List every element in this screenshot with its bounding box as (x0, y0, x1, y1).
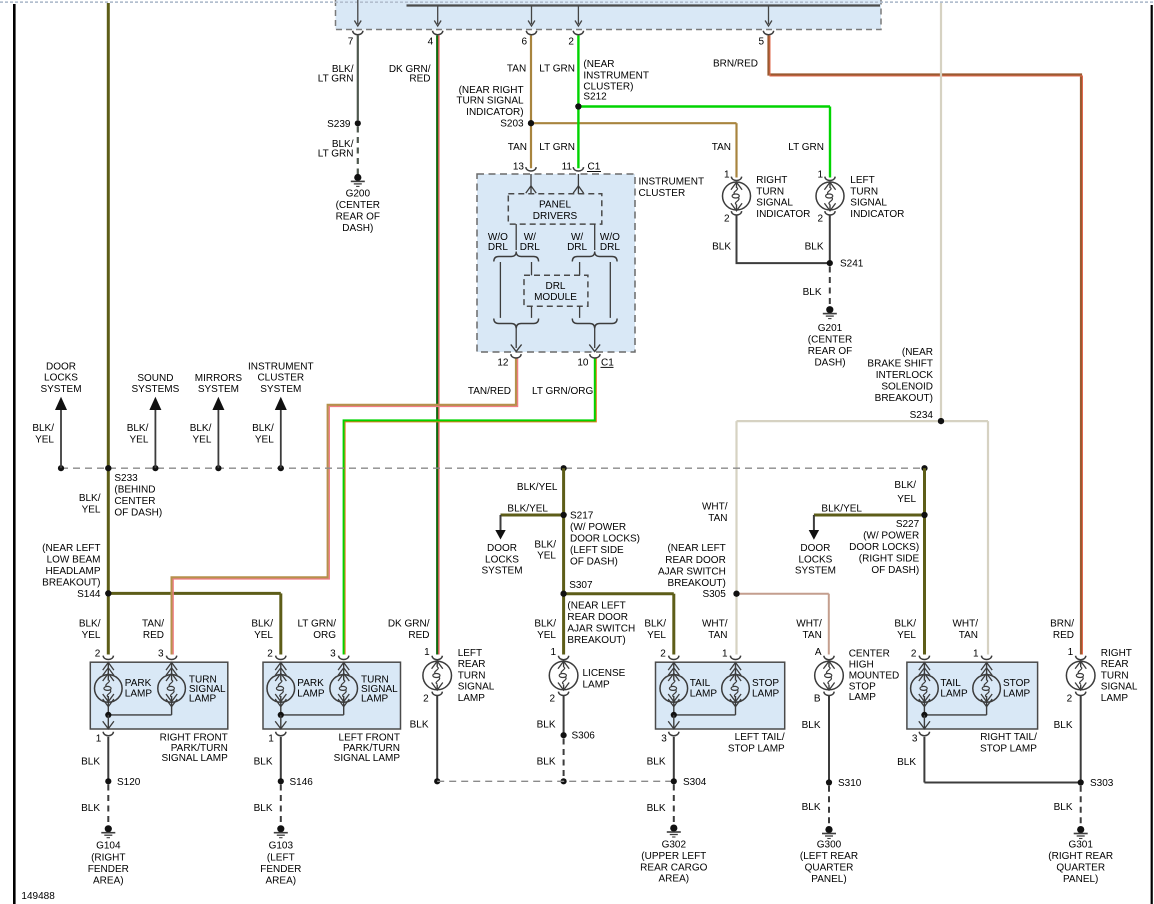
svg-text:1: 1 (268, 734, 274, 745)
svg-text:LT GRN: LT GRN (539, 142, 575, 153)
svg-text:BLK: BLK (1054, 720, 1073, 731)
svg-text:LAMP: LAMP (125, 688, 153, 699)
svg-text:(W/ POWER: (W/ POWER (863, 530, 919, 541)
svg-text:S227: S227 (896, 519, 920, 530)
svg-text:CENTER: CENTER (849, 649, 890, 660)
svg-text:(BEHIND: (BEHIND (114, 485, 155, 496)
svg-text:(NEAR LEFT: (NEAR LEFT (667, 543, 725, 554)
svg-text:BLK/: BLK/ (534, 540, 556, 551)
svg-text:1: 1 (424, 647, 430, 658)
svg-text:S233: S233 (114, 473, 138, 484)
svg-text:REAR DOOR: REAR DOOR (567, 612, 628, 623)
svg-text:BLK: BLK (537, 757, 556, 768)
svg-text:TURN: TURN (458, 670, 486, 681)
svg-text:SIGNAL LAMP: SIGNAL LAMP (334, 753, 401, 764)
svg-text:PANEL): PANEL) (1063, 874, 1098, 885)
svg-text:INSTRUMENT: INSTRUMENT (248, 362, 314, 373)
svg-text:RIGHT TAIL/: RIGHT TAIL/ (980, 732, 1037, 743)
svg-text:TAN: TAN (508, 142, 527, 153)
svg-text:RED: RED (143, 630, 164, 641)
svg-text:MIRRORS: MIRRORS (195, 373, 243, 384)
svg-text:MOUNTED: MOUNTED (849, 670, 900, 681)
svg-text:(NEAR LEFT: (NEAR LEFT (567, 601, 625, 612)
svg-text:SIGNAL: SIGNAL (1101, 682, 1138, 693)
svg-text:WHT/: WHT/ (952, 619, 978, 630)
svg-text:DK GRN/: DK GRN/ (388, 619, 430, 630)
svg-text:TAN/: TAN/ (142, 619, 164, 630)
svg-text:DOOR LOCKS): DOOR LOCKS) (849, 542, 919, 553)
svg-text:BLK: BLK (802, 720, 821, 731)
svg-text:S144: S144 (77, 589, 101, 600)
svg-text:SYSTEM: SYSTEM (481, 565, 522, 576)
svg-text:SYSTEMS: SYSTEMS (132, 384, 180, 395)
svg-text:YEL: YEL (255, 434, 274, 445)
svg-text:(LEFT SIDE: (LEFT SIDE (570, 545, 624, 556)
svg-text:G103: G103 (269, 841, 294, 852)
svg-text:G201: G201 (818, 323, 843, 334)
svg-text:LT GRN: LT GRN (539, 64, 575, 75)
svg-text:TAN: TAN (708, 630, 727, 641)
svg-text:G300: G300 (817, 840, 842, 851)
svg-text:LT GRN: LT GRN (318, 148, 354, 159)
svg-text:LEFT: LEFT (458, 648, 482, 659)
svg-text:S310: S310 (838, 778, 862, 789)
svg-text:6: 6 (521, 37, 527, 48)
svg-text:2: 2 (95, 648, 101, 659)
svg-text:INSTRUMENT: INSTRUMENT (583, 70, 649, 81)
svg-text:SYSTEM: SYSTEM (260, 384, 301, 395)
svg-text:DOOR: DOOR (487, 543, 517, 554)
svg-text:TURN: TURN (850, 186, 878, 197)
svg-text:S217: S217 (570, 511, 594, 522)
svg-text:YEL: YEL (537, 630, 556, 641)
svg-text:(CENTER: (CENTER (336, 200, 380, 211)
svg-text:RIGHT: RIGHT (756, 175, 787, 186)
svg-text:SIGNAL LAMP: SIGNAL LAMP (161, 753, 228, 764)
svg-text:(LEFT REAR: (LEFT REAR (800, 851, 858, 862)
svg-text:ORG: ORG (313, 630, 336, 641)
svg-text:1: 1 (973, 648, 979, 659)
svg-text:BREAKOUT): BREAKOUT) (875, 393, 933, 404)
svg-text:LAMP: LAMP (297, 688, 325, 699)
svg-text:STOP LAMP: STOP LAMP (980, 744, 1037, 755)
svg-text:S239: S239 (327, 119, 351, 130)
svg-text:BLK: BLK (805, 242, 824, 253)
svg-text:AJAR SWITCH: AJAR SWITCH (658, 567, 726, 578)
svg-text:S306: S306 (572, 731, 596, 742)
svg-text:BLK: BLK (81, 803, 100, 814)
svg-text:STOP: STOP (752, 678, 779, 689)
svg-text:BLK: BLK (1054, 802, 1073, 813)
svg-text:QUARTER: QUARTER (805, 862, 854, 873)
svg-text:LAMP: LAMP (752, 688, 780, 699)
svg-text:C1: C1 (588, 162, 601, 173)
svg-text:YEL: YEL (192, 434, 211, 445)
svg-text:S307: S307 (569, 580, 593, 591)
svg-text:3: 3 (330, 648, 336, 659)
svg-text:3: 3 (912, 734, 918, 745)
svg-text:LAMP: LAMP (1101, 693, 1129, 704)
svg-text:TAIL: TAIL (690, 678, 711, 689)
svg-text:RIGHT FRONT: RIGHT FRONT (160, 732, 228, 743)
svg-text:INSTRUMENT: INSTRUMENT (639, 177, 705, 188)
svg-text:BRAKE SHIFT: BRAKE SHIFT (867, 359, 933, 370)
svg-text:12: 12 (497, 357, 509, 368)
svg-text:STOP: STOP (1003, 678, 1030, 689)
svg-text:YEL: YEL (254, 630, 273, 641)
svg-text:LAMP: LAMP (583, 679, 611, 690)
svg-text:REAR: REAR (1101, 659, 1129, 670)
svg-text:DRL: DRL (600, 242, 620, 253)
svg-text:LOCKS: LOCKS (798, 554, 832, 565)
svg-text:2: 2 (660, 648, 666, 659)
svg-text:WHT/: WHT/ (796, 619, 822, 630)
svg-text:S234: S234 (910, 410, 934, 421)
svg-text:C1: C1 (601, 357, 614, 368)
svg-text:DASH): DASH) (814, 358, 845, 369)
svg-text:2: 2 (568, 37, 574, 48)
svg-text:BLK: BLK (802, 802, 821, 813)
svg-text:3: 3 (661, 734, 667, 745)
svg-text:DRIVERS: DRIVERS (533, 211, 578, 222)
svg-text:BLK/: BLK/ (79, 493, 101, 504)
svg-text:LEFT FRONT: LEFT FRONT (339, 732, 400, 743)
svg-text:BREAKOUT): BREAKOUT) (42, 578, 100, 589)
svg-text:S212: S212 (583, 92, 607, 103)
svg-text:BLK/: BLK/ (32, 423, 54, 434)
svg-text:LT GRN: LT GRN (788, 142, 824, 153)
svg-text:AREA): AREA) (659, 874, 690, 885)
svg-text:SIGNAL: SIGNAL (458, 682, 495, 693)
svg-text:BLK/: BLK/ (79, 619, 101, 630)
svg-text:OF DASH): OF DASH) (114, 508, 162, 519)
svg-text:(W/ POWER: (W/ POWER (570, 522, 626, 533)
svg-text:TURN: TURN (756, 186, 784, 197)
svg-text:A: A (815, 647, 822, 658)
svg-text:SIGNAL: SIGNAL (756, 198, 793, 209)
svg-text:YEL: YEL (82, 505, 101, 516)
svg-text:13: 13 (513, 162, 525, 173)
svg-text:S241: S241 (840, 259, 864, 270)
svg-text:2: 2 (550, 693, 556, 704)
svg-text:FENDER: FENDER (88, 864, 129, 875)
svg-text:BLK: BLK (803, 287, 822, 298)
svg-text:2: 2 (423, 693, 429, 704)
svg-text:S203: S203 (500, 119, 524, 130)
svg-text:REAR OF: REAR OF (336, 212, 380, 223)
svg-text:PARK/TURN: PARK/TURN (171, 743, 228, 754)
svg-text:YEL: YEL (647, 630, 666, 641)
svg-text:RED: RED (1053, 630, 1074, 641)
svg-text:YEL: YEL (129, 434, 148, 445)
svg-text:TAN/RED: TAN/RED (468, 386, 511, 397)
svg-text:1: 1 (817, 170, 823, 181)
svg-text:1: 1 (96, 734, 102, 745)
svg-text:1: 1 (722, 648, 728, 659)
svg-text:BLK: BLK (410, 720, 429, 731)
svg-text:LAMP: LAMP (690, 688, 718, 699)
svg-text:HEADLAMP: HEADLAMP (45, 566, 100, 577)
svg-text:BLK/: BLK/ (644, 619, 666, 630)
svg-text:TURN SIGNAL: TURN SIGNAL (456, 96, 524, 107)
svg-text:DRL: DRL (488, 242, 508, 253)
svg-text:BLK: BLK (647, 803, 666, 814)
svg-text:LAMP: LAMP (189, 694, 217, 705)
svg-text:BLK: BLK (647, 757, 666, 768)
svg-text:CLUSTER): CLUSTER) (583, 81, 633, 92)
svg-text:AJAR SWITCH: AJAR SWITCH (567, 624, 635, 635)
svg-text:LT GRN/: LT GRN/ (297, 619, 336, 630)
svg-text:YEL: YEL (82, 630, 101, 641)
svg-text:TAN: TAN (712, 142, 731, 153)
svg-text:LAMP: LAMP (849, 692, 877, 703)
svg-text:BLK: BLK (897, 757, 916, 768)
svg-text:QUARTER: QUARTER (1056, 862, 1105, 873)
svg-text:PANEL): PANEL) (811, 874, 846, 885)
svg-text:LICENSE: LICENSE (583, 668, 626, 679)
svg-text:2: 2 (911, 648, 917, 659)
svg-text:BLK: BLK (81, 757, 100, 768)
svg-text:INDICATOR: INDICATOR (850, 209, 904, 220)
svg-text:YEL: YEL (897, 630, 916, 641)
svg-text:G302: G302 (662, 840, 687, 851)
svg-text:PARK: PARK (125, 678, 152, 689)
svg-text:PARK/TURN: PARK/TURN (343, 743, 400, 754)
svg-text:DRL: DRL (567, 242, 587, 253)
svg-text:2: 2 (1067, 693, 1073, 704)
svg-text:REAR OF: REAR OF (808, 346, 852, 357)
svg-text:RIGHT: RIGHT (1101, 648, 1132, 659)
svg-text:SYSTEM: SYSTEM (198, 384, 239, 395)
svg-text:BRN/RED: BRN/RED (713, 59, 758, 70)
svg-text:(CENTER: (CENTER (808, 335, 852, 346)
svg-text:LEFT TAIL/: LEFT TAIL/ (735, 732, 785, 743)
svg-text:TAN: TAN (507, 64, 526, 75)
svg-text:BLK/: BLK/ (894, 619, 916, 630)
svg-text:S305: S305 (702, 589, 726, 600)
svg-text:B: B (814, 693, 821, 704)
svg-text:SOUND: SOUND (137, 373, 173, 384)
svg-text:1: 1 (724, 170, 730, 181)
svg-text:BREAKOUT): BREAKOUT) (667, 578, 725, 589)
svg-text:(NEAR LEFT: (NEAR LEFT (42, 543, 100, 554)
svg-text:(NEAR: (NEAR (583, 59, 614, 70)
svg-text:SOLENOID: SOLENOID (881, 382, 933, 393)
svg-text:YEL: YEL (897, 494, 916, 505)
svg-text:S303: S303 (1090, 778, 1114, 789)
svg-text:11: 11 (562, 162, 573, 173)
svg-text:G301: G301 (1068, 840, 1093, 851)
svg-text:YEL: YEL (35, 434, 54, 445)
svg-text:2: 2 (817, 214, 823, 225)
svg-text:(UPPER LEFT: (UPPER LEFT (641, 851, 706, 862)
svg-text:REAR CARGO: REAR CARGO (640, 862, 707, 873)
svg-text:BLK: BLK (254, 803, 273, 814)
svg-text:G104: G104 (96, 841, 121, 852)
svg-text:TAIL: TAIL (940, 678, 961, 689)
svg-text:LAMP: LAMP (1003, 688, 1031, 699)
svg-text:(NEAR RIGHT: (NEAR RIGHT (459, 85, 524, 96)
svg-text:RED: RED (408, 630, 429, 641)
svg-text:REAR: REAR (458, 659, 486, 670)
svg-text:DOOR LOCKS): DOOR LOCKS) (570, 534, 640, 545)
svg-text:STOP: STOP (849, 681, 876, 692)
svg-text:BLK/: BLK/ (894, 480, 916, 491)
svg-text:DRL: DRL (520, 242, 540, 253)
svg-text:149488: 149488 (21, 891, 55, 902)
svg-text:(RIGHT SIDE: (RIGHT SIDE (859, 553, 920, 564)
svg-text:BREAKOUT): BREAKOUT) (567, 635, 625, 646)
svg-text:CLUSTER: CLUSTER (639, 188, 686, 199)
svg-text:LEFT: LEFT (850, 175, 874, 186)
svg-text:2: 2 (724, 214, 730, 225)
svg-text:(RIGHT REAR: (RIGHT REAR (1048, 851, 1113, 862)
svg-text:INDICATOR: INDICATOR (756, 209, 810, 220)
svg-text:BLK/: BLK/ (534, 619, 556, 630)
svg-text:INDICATOR): INDICATOR) (466, 107, 523, 118)
svg-text:TURN: TURN (1101, 670, 1129, 681)
svg-text:LAMP: LAMP (458, 693, 486, 704)
svg-text:LT GRN/ORG: LT GRN/ORG (532, 386, 594, 397)
svg-text:TAN: TAN (803, 630, 822, 641)
svg-text:DOOR: DOOR (46, 362, 76, 373)
svg-text:1: 1 (551, 647, 557, 658)
svg-text:BLK: BLK (254, 757, 273, 768)
svg-text:CENTER: CENTER (114, 496, 155, 507)
svg-text:BLK/YEL: BLK/YEL (507, 503, 548, 514)
svg-text:LAMP: LAMP (361, 694, 389, 705)
svg-text:CLUSTER: CLUSTER (257, 373, 304, 384)
svg-text:BLK/YEL: BLK/YEL (517, 482, 558, 493)
svg-text:BLK: BLK (537, 720, 556, 731)
svg-text:FENDER: FENDER (260, 864, 301, 875)
svg-text:MODULE: MODULE (534, 292, 577, 303)
svg-text:LOCKS: LOCKS (44, 373, 78, 384)
svg-text:LOW BEAM: LOW BEAM (47, 555, 101, 566)
svg-text:DRL: DRL (545, 281, 565, 292)
svg-text:OF DASH): OF DASH) (871, 565, 919, 576)
svg-text:TAN: TAN (708, 513, 727, 524)
svg-text:WHT/: WHT/ (702, 501, 728, 512)
svg-text:PANEL: PANEL (539, 200, 571, 211)
svg-text:S304: S304 (683, 777, 707, 788)
svg-text:DASH): DASH) (342, 223, 373, 234)
svg-text:S146: S146 (290, 777, 314, 788)
svg-text:RED: RED (409, 74, 430, 85)
svg-text:LT GRN: LT GRN (318, 74, 354, 85)
svg-text:3: 3 (158, 648, 164, 659)
svg-text:HIGH: HIGH (849, 660, 874, 671)
svg-text:AREA): AREA) (93, 875, 124, 886)
svg-text:TAN: TAN (959, 630, 978, 641)
svg-text:STOP LAMP: STOP LAMP (728, 744, 785, 755)
svg-text:BLK: BLK (712, 242, 731, 253)
svg-text:LOCKS: LOCKS (485, 554, 519, 565)
svg-text:BLK/: BLK/ (127, 423, 149, 434)
svg-text:SIGNAL: SIGNAL (850, 198, 887, 209)
svg-text:G200: G200 (346, 189, 371, 200)
svg-text:(NEAR: (NEAR (902, 347, 933, 358)
svg-text:SYSTEM: SYSTEM (40, 384, 81, 395)
svg-text:(LEFT: (LEFT (267, 853, 295, 864)
svg-text:5: 5 (758, 37, 764, 48)
svg-text:2: 2 (267, 648, 273, 659)
svg-text:4: 4 (428, 37, 434, 48)
svg-text:10: 10 (577, 357, 589, 368)
svg-text:S120: S120 (117, 777, 141, 788)
svg-text:BLK/YEL: BLK/YEL (821, 504, 862, 515)
svg-text:DOOR: DOOR (800, 543, 830, 554)
svg-text:BRN/: BRN/ (1050, 619, 1074, 630)
svg-text:BLK/: BLK/ (190, 423, 212, 434)
svg-text:REAR DOOR: REAR DOOR (665, 555, 726, 566)
svg-text:7: 7 (348, 37, 354, 48)
svg-text:LAMP: LAMP (940, 688, 968, 699)
svg-text:BLK/: BLK/ (252, 423, 274, 434)
svg-text:OF DASH): OF DASH) (570, 557, 618, 568)
svg-text:INTERLOCK: INTERLOCK (876, 370, 934, 381)
svg-text:SYSTEM: SYSTEM (795, 565, 836, 576)
svg-text:PARK: PARK (297, 678, 324, 689)
svg-text:AREA): AREA) (266, 875, 297, 886)
svg-text:(RIGHT: (RIGHT (91, 853, 125, 864)
svg-text:YEL: YEL (537, 551, 556, 562)
svg-text:BLK/: BLK/ (251, 619, 273, 630)
svg-text:1: 1 (1068, 647, 1074, 658)
svg-text:WHT/: WHT/ (702, 619, 728, 630)
